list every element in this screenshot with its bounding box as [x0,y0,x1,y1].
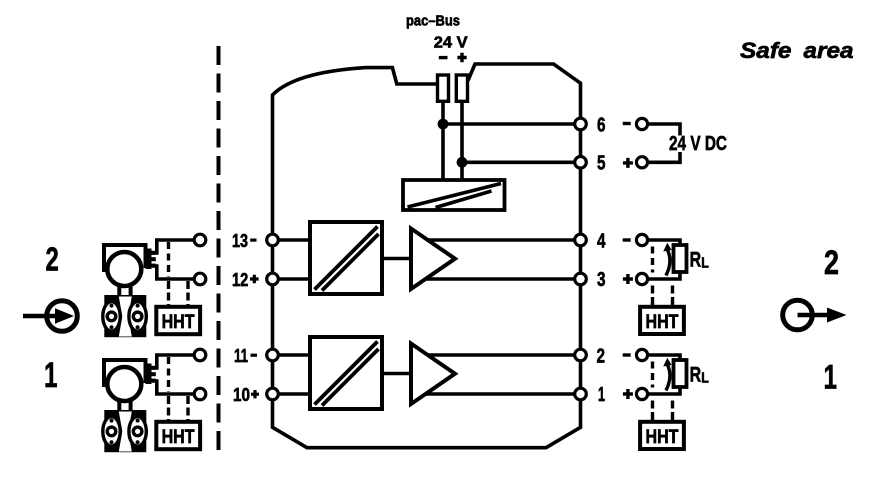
svg-text:R: R [690,248,702,271]
svg-text:1: 1 [598,383,605,406]
svg-text:2: 2 [597,344,606,367]
svg-text:3: 3 [597,268,606,291]
svg-text:24 V: 24 V [434,35,468,52]
svg-text:24 V DC: 24 V DC [669,132,727,155]
svg-text:1: 1 [44,356,58,395]
svg-text:13: 13 [232,230,248,251]
svg-text:Safe: Safe [740,38,792,63]
svg-text:2: 2 [824,244,839,282]
svg-text:L: L [701,255,709,271]
svg-text:4: 4 [597,229,606,252]
svg-text:11: 11 [234,345,248,366]
svg-text:5: 5 [597,152,606,175]
svg-text:1: 1 [824,359,838,397]
svg-text:10: 10 [233,384,250,405]
svg-text:HHT: HHT [646,312,679,333]
svg-text:2: 2 [46,241,59,278]
svg-text:6: 6 [597,113,606,136]
svg-text:HHT: HHT [162,312,195,333]
svg-text:pac–Bus: pac–Bus [406,12,460,29]
svg-text:12: 12 [232,269,248,290]
svg-text:area: area [804,38,854,63]
